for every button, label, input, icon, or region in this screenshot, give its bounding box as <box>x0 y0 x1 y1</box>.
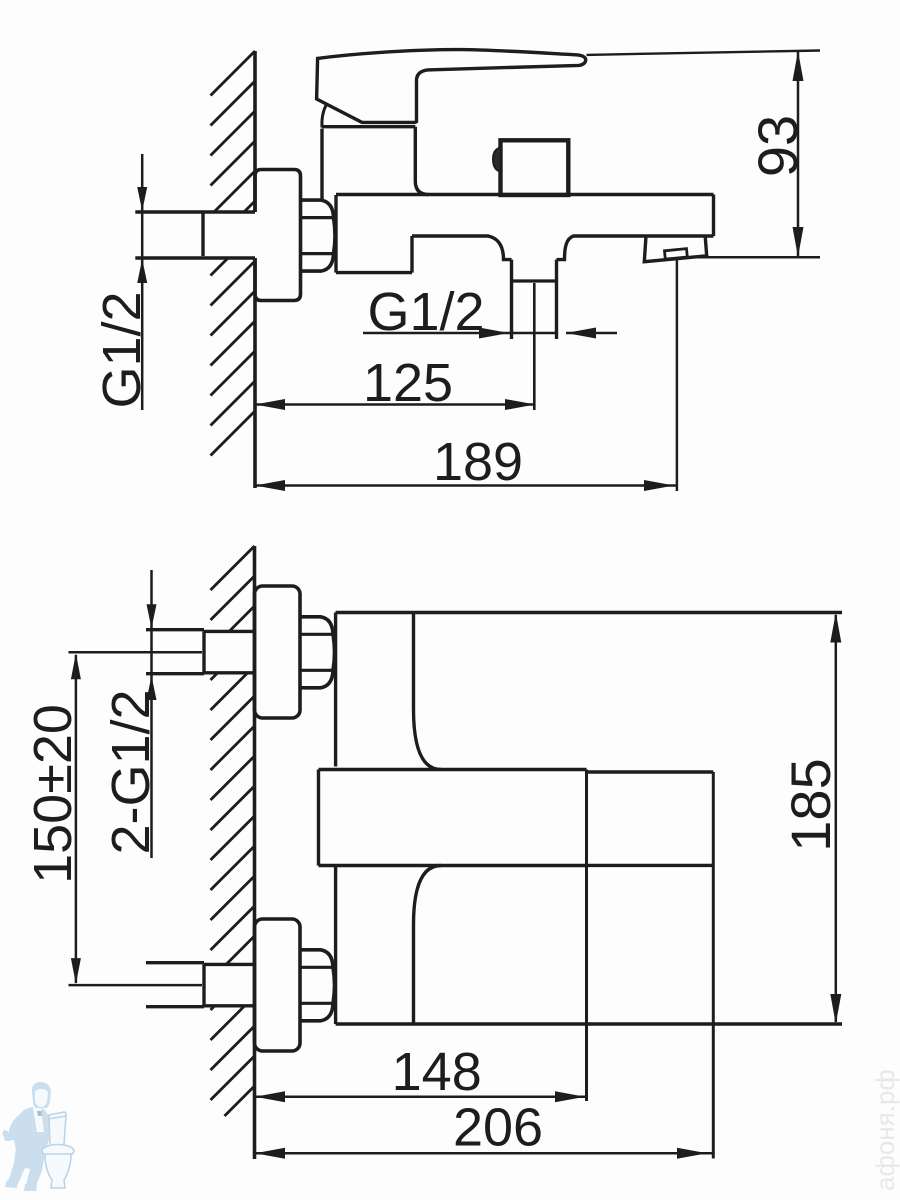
svg-text:афоня.рф: афоня.рф <box>870 1069 900 1191</box>
svg-text:G1/2: G1/2 <box>92 291 152 408</box>
svg-text:189: 189 <box>433 432 523 492</box>
svg-text:G1/2: G1/2 <box>367 282 484 342</box>
svg-text:206: 206 <box>453 1097 543 1157</box>
svg-text:150±20: 150±20 <box>23 704 83 884</box>
svg-text:148: 148 <box>392 1042 482 1102</box>
svg-text:125: 125 <box>363 353 453 413</box>
svg-text:185: 185 <box>779 758 842 851</box>
svg-text:93: 93 <box>746 115 809 177</box>
svg-text:2-G1/2: 2-G1/2 <box>101 689 161 854</box>
